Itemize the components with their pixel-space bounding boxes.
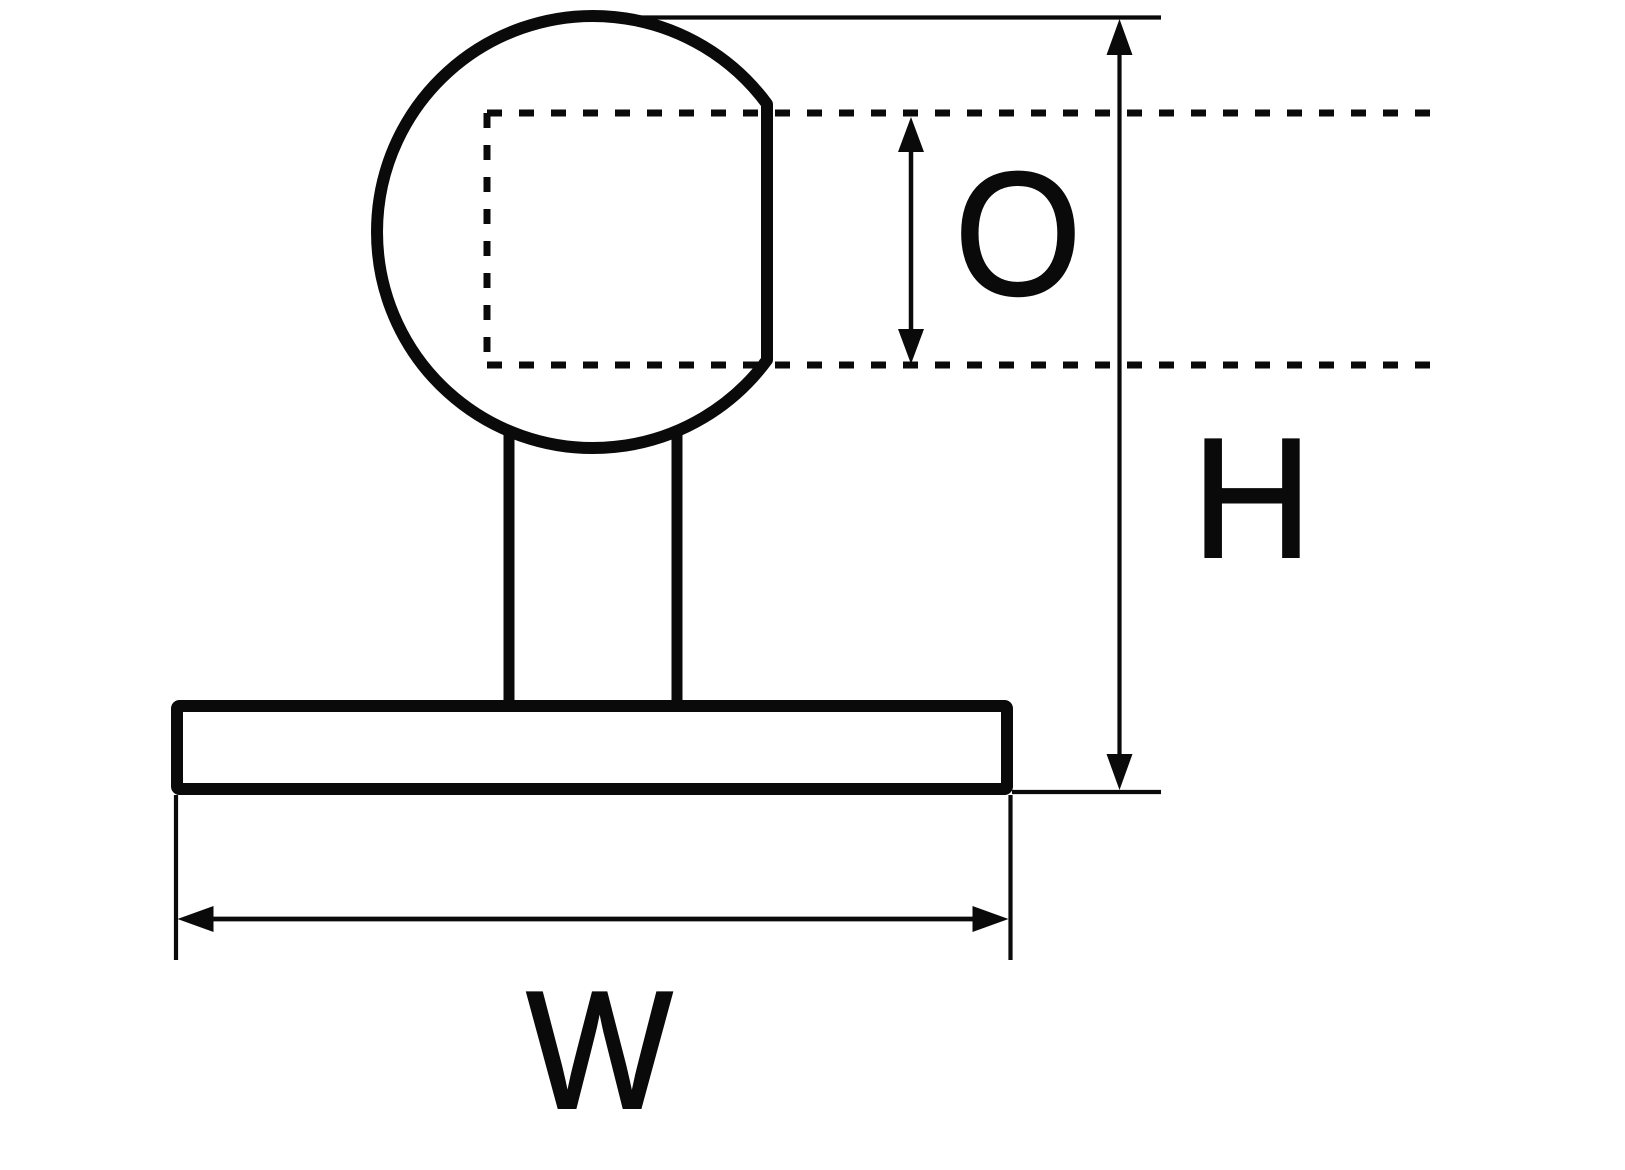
- W left extension line: [174, 795, 178, 960]
- W right extension line: [1008, 795, 1012, 960]
- stem left wire: [504, 425, 515, 710]
- hidden tube bottom dashed line: [487, 362, 1442, 369]
- dimension W arrowhead left: [178, 906, 214, 932]
- stem right wire: [672, 425, 683, 710]
- svg-text:W: W: [526, 957, 673, 1144]
- ball (circle with flat right chord): [377, 16, 767, 448]
- svg-text:O: O: [954, 136, 1081, 333]
- base plate: [177, 706, 1007, 789]
- dimension H arrow shaft: [1117, 40, 1121, 768]
- dimension O arrowhead bottom: [898, 329, 924, 364]
- hidden tube left dashed line: [484, 113, 491, 365]
- H top extension line: [595, 15, 1161, 19]
- hidden tube top dashed line: [487, 110, 1442, 117]
- dimension W arrowhead right: [973, 906, 1009, 932]
- dimension W arrow shaft: [205, 917, 982, 922]
- H bottom extension line: [1012, 790, 1161, 794]
- svg-text:H: H: [1192, 402, 1313, 593]
- dimension O arrow shaft: [909, 145, 914, 340]
- dimension O arrowhead top: [898, 117, 924, 152]
- dimension H arrowhead bottom: [1107, 754, 1133, 790]
- dimension H arrowhead top: [1107, 19, 1133, 55]
